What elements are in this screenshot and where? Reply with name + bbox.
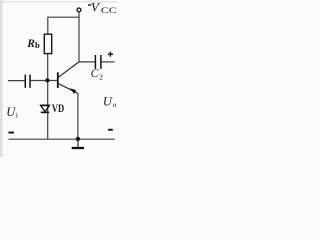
wire input lead bbox=[8, 80, 25, 82]
power terminal -VCC bbox=[77, 8, 81, 12]
wire -VCC vertical drop to collector node bbox=[78, 12, 80, 62]
node base junction dot bbox=[45, 78, 49, 82]
background bbox=[0, 0, 120, 157]
label - output polarity bbox=[108, 129, 113, 131]
label - input polarity bbox=[8, 132, 14, 134]
diode VD cathode bar bbox=[41, 111, 49, 113]
capacitor C1 left plate bbox=[24, 75, 26, 88]
wire capacitor to base bbox=[31, 80, 58, 82]
transistor V collector lead bbox=[59, 62, 79, 77]
capacitor C1 right plate bbox=[29, 75, 31, 88]
wire C2 to output bbox=[102, 61, 115, 63]
wire collector node to C2 bbox=[78, 61, 95, 63]
wire emitter to bottom rail bbox=[77, 93, 79, 139]
wire top rail bbox=[48, 17, 79, 34]
transistor V emitter lead bbox=[59, 84, 78, 94]
ground bar bbox=[72, 147, 84, 149]
wire Rb bottom to diode and ground rail bbox=[47, 54, 49, 139]
label + output polarity bbox=[108, 52, 113, 57]
svg-text:VD: VD bbox=[52, 101, 65, 115]
node emitter-ground junction dot bbox=[76, 137, 80, 141]
capacitor C2 left plate bbox=[94, 55, 96, 69]
svg-text:CC: CC bbox=[101, 5, 117, 15]
page left edge band (decorative) bbox=[0, 0, 3, 157]
transistor V base bar bbox=[57, 72, 59, 88]
transistor V emitter arrow (PNP, pointing to base) bbox=[70, 88, 76, 94]
diode VD anode top bar bbox=[40, 104, 49, 106]
diode VD triangle bbox=[41, 105, 50, 111]
label -VCC minus sign bbox=[88, 4, 91, 5]
page top edge line (decorative) bbox=[3, 1, 118, 3]
wire bottom rail bbox=[9, 138, 115, 140]
resistor Rb bbox=[44, 34, 51, 53]
ground stub bbox=[77, 139, 79, 148]
capacitor C2 right plate bbox=[100, 55, 102, 69]
svg-text:Rb: Rb bbox=[26, 38, 40, 50]
